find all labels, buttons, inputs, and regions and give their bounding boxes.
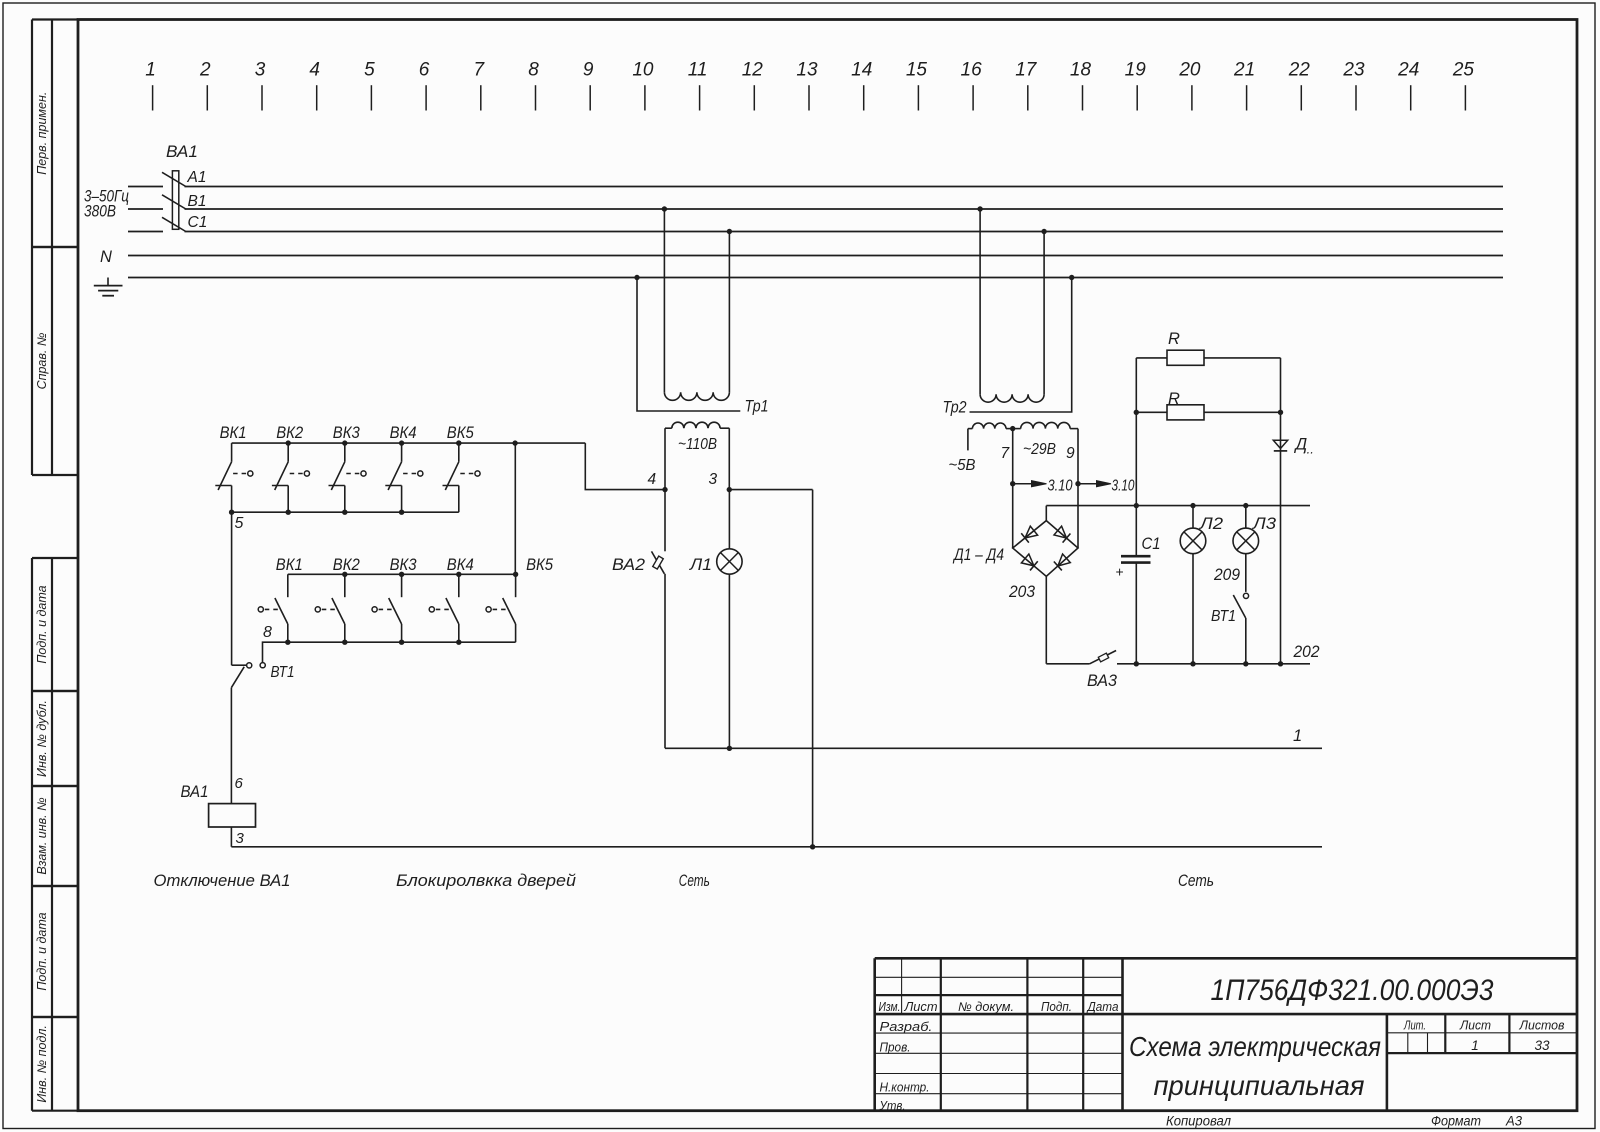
svg-text:R: R (1168, 330, 1180, 348)
svg-text:19: 19 (1125, 60, 1147, 81)
svg-text:принципиальная: принципиальная (1154, 1070, 1365, 1101)
svg-text:23: 23 (1342, 60, 1365, 81)
svg-text:Подп. и дата: Подп. и дата (35, 912, 49, 990)
lamp Л3 (1233, 503, 1277, 592)
svg-text:Н.контр.: Н.контр. (880, 1081, 930, 1095)
svg-text:ВТ1: ВТ1 (1211, 608, 1236, 625)
svg-text:N: N (100, 248, 112, 266)
svg-text:21: 21 (1233, 60, 1255, 81)
svg-text:Блокиролвкка дверей: Блокиролвкка дверей (396, 872, 576, 890)
svg-text:Лист: Лист (1459, 1019, 1491, 1033)
wire Tr2 pin 7 lead (1001, 426, 1016, 548)
transformer Tr2 primary winding (980, 394, 1044, 402)
svg-text:20: 20 (1178, 60, 1201, 81)
svg-text:1П756ДФ321.00.000Э3: 1П756ДФ321.00.000Э3 (1211, 974, 1494, 1007)
svg-text:33: 33 (1534, 1038, 1550, 1053)
svg-text:Д1 – Д4: Д1 – Д4 (952, 546, 1004, 564)
relay coil BA1 (181, 783, 256, 827)
svg-text:ВА1: ВА1 (166, 142, 198, 161)
svg-text:Инв. № подл.: Инв. № подл. (35, 1025, 49, 1103)
svg-text:...: ... (1303, 442, 1314, 457)
wire B1 to Tr1 primary (662, 206, 667, 392)
switch BT1 (right) (1211, 593, 1249, 666)
svg-text:Тр2: Тр2 (943, 398, 967, 417)
label Блокиролвкка дверей (396, 872, 576, 890)
svg-text:25: 25 (1452, 60, 1475, 81)
label Формат А3 (1431, 1114, 1522, 1129)
wire Tr1 pin3 junction (727, 487, 813, 492)
switch BA2 (612, 490, 665, 749)
wire C1 to Tr1 primary (727, 229, 732, 392)
junction dot rail1-BK5 (456, 440, 461, 445)
wire bridge minus to BA3 (1046, 576, 1089, 664)
wire Tr1 shield from PE (634, 275, 740, 411)
wire rail to BK switches row 1 (232, 442, 586, 444)
wire C1 to Tr2 primary (1041, 229, 1046, 394)
wire bottom rail (net to Сеть) (231, 844, 1322, 849)
svg-text:R: R (1168, 390, 1180, 408)
limit switch BK2 (upper row) (272, 423, 310, 515)
svg-text:203: 203 (1008, 583, 1036, 601)
svg-text:4: 4 (648, 471, 657, 488)
svg-text:+: + (1116, 564, 1124, 580)
label Копировал (1166, 1114, 1231, 1129)
label supply 3~50Гц 380В (84, 188, 129, 221)
svg-text:Перв. примен.: Перв. примен. (35, 92, 49, 175)
svg-text:18: 18 (1070, 60, 1092, 81)
wire feed to BK row 2 (514, 443, 516, 574)
limit switch BK1 (upper row) (215, 423, 253, 515)
svg-text:22: 22 (1288, 60, 1311, 81)
svg-text:380В: 380В (84, 203, 116, 221)
left margin stamp boxes (32, 20, 78, 1111)
limit switch BK5 (upper row) (443, 423, 481, 512)
wire plus rail (1046, 505, 1310, 507)
svg-text:Отключение ВА1: Отключение ВА1 (154, 872, 291, 890)
svg-text:Л3: Л3 (1252, 515, 1277, 533)
svg-text:~5В: ~5В (949, 457, 976, 474)
limit switch BK3 (lower row) (372, 555, 417, 645)
svg-text:Сеть: Сеть (679, 872, 710, 890)
label 209 (1213, 566, 1240, 584)
svg-text:3: 3 (255, 60, 266, 81)
svg-text:ВК4: ВК4 (447, 555, 474, 574)
svg-text:ВА2: ВА2 (612, 555, 646, 574)
wire relay BA1 to bottom rail, pin 3 (231, 827, 244, 847)
svg-text:209: 209 (1213, 566, 1240, 584)
wire R branch right riser (1278, 358, 1283, 667)
svg-text:Дата: Дата (1086, 1000, 1119, 1014)
svg-text:Изм.: Изм. (879, 1000, 901, 1014)
wire phase bus A1 (128, 169, 1503, 187)
wire net 202 rail (1117, 643, 1320, 664)
circuit breaker BA1 (162, 142, 198, 232)
diode Д… (1273, 436, 1314, 457)
svg-text:Копировал: Копировал (1166, 1114, 1231, 1129)
svg-text:Инв. № дубл.: Инв. № дубл. (35, 700, 49, 777)
svg-text:4: 4 (309, 60, 320, 81)
svg-text:А3: А3 (1505, 1114, 1522, 1129)
svg-text:Л2: Л2 (1199, 515, 1223, 533)
wire BK rail to Tr1 pin 4 (585, 443, 667, 492)
svg-text:Тр1: Тр1 (745, 397, 769, 416)
svg-text:ВК2: ВК2 (333, 555, 360, 574)
svg-text:Лит.: Лит. (1403, 1019, 1426, 1033)
transformer Tr2 label (943, 398, 967, 417)
svg-text:ВК5: ВК5 (526, 555, 553, 574)
svg-text:Схема электрическая: Схема электрическая (1129, 1031, 1381, 1062)
svg-text:№ докум.: № докум. (958, 1000, 1014, 1014)
svg-text:7: 7 (474, 60, 486, 81)
svg-text:3.10: 3.10 (1112, 478, 1135, 495)
reference arrow 3.10 from pin 9 (1075, 478, 1134, 495)
wire Tr1 pin 4 lead (648, 428, 666, 489)
wire bridge plus riser (1045, 506, 1047, 521)
limit switch BK4 (upper row) (385, 423, 423, 515)
svg-text:12: 12 (742, 60, 764, 81)
svg-text:15: 15 (906, 60, 928, 81)
svg-text:В1: В1 (188, 193, 207, 210)
wire Tr1 pin 3 lead (709, 428, 730, 489)
label Сеть (right) (1178, 872, 1214, 890)
svg-text:ВТ1: ВТ1 (271, 664, 295, 681)
wire B1 to Tr2 primary (977, 206, 982, 394)
svg-text:Взам. инв. №: Взам. инв. № (35, 797, 49, 875)
junction dot rail1 to row2 feed (512, 440, 517, 445)
svg-text:~110В: ~110В (678, 436, 717, 453)
svg-text:8: 8 (528, 60, 539, 81)
svg-text:2: 2 (199, 60, 211, 81)
wire node 5 rail (232, 512, 459, 532)
svg-text:6: 6 (419, 60, 430, 81)
wire drop to bottom rail (812, 490, 814, 847)
label node 203 (1008, 583, 1036, 601)
svg-text:Подп.: Подп. (1041, 1000, 1072, 1014)
svg-text:ВК1: ВК1 (276, 555, 303, 574)
svg-text:9: 9 (1066, 445, 1075, 462)
selector switch BT1 (left) (231, 663, 294, 688)
svg-text:Подп. и дата: Подп. и дата (35, 585, 49, 663)
limit switch BK2 (lower row) (315, 555, 360, 645)
svg-text:13: 13 (796, 60, 818, 81)
transformer Tr1 label (745, 397, 769, 416)
svg-text:9: 9 (583, 60, 594, 81)
svg-text:6: 6 (235, 775, 244, 792)
svg-text:202: 202 (1293, 643, 1320, 661)
wire phase bus B1 (128, 193, 1503, 210)
lamp Л2 (1180, 503, 1223, 667)
switch BA3 (1087, 651, 1118, 691)
svg-text:17: 17 (1015, 60, 1038, 81)
svg-text:Утв.: Утв. (879, 1099, 906, 1113)
svg-text:Листов: Листов (1519, 1019, 1565, 1033)
svg-text:Разраб.: Разраб. (880, 1020, 933, 1034)
svg-text:3.10: 3.10 (1048, 478, 1073, 495)
svg-text:ВК1: ВК1 (220, 423, 247, 442)
svg-text:Формат: Формат (1431, 1114, 1481, 1129)
svg-text:С1: С1 (188, 214, 208, 231)
svg-text:ВК5: ВК5 (447, 423, 474, 442)
svg-text:ВА1: ВА1 (181, 783, 209, 801)
svg-text:1: 1 (1471, 1038, 1479, 1053)
title block (875, 958, 1577, 1113)
svg-text:Сеть: Сеть (1178, 872, 1214, 890)
reference arrow 3.10 from pin 7 (1010, 478, 1073, 495)
label Сеть (left) (679, 872, 710, 890)
limit switch BK5 (lower row) (486, 555, 554, 642)
resistor R (lower) (1134, 390, 1284, 420)
svg-text:ВК2: ВК2 (276, 423, 303, 442)
svg-text:Лист: Лист (903, 1000, 937, 1014)
svg-text:5: 5 (364, 60, 375, 81)
svg-text:ВК3: ВК3 (333, 423, 360, 442)
wire phase bus C1 (128, 214, 1503, 232)
transformer Tr1 primary winding (664, 392, 729, 400)
svg-text:Справ. №: Справ. № (35, 332, 49, 389)
transformer Tr2 secondary winding ~29В (1013, 422, 1078, 458)
resistor R (upper) (1136, 330, 1280, 365)
svg-text:Пров.: Пров. (880, 1041, 911, 1055)
svg-text:ВК3: ВК3 (390, 555, 417, 574)
svg-text:С1: С1 (1142, 535, 1161, 553)
svg-text:5: 5 (235, 515, 244, 532)
wire net 1 (665, 727, 1322, 751)
svg-text:ВК4: ВК4 (390, 423, 417, 442)
svg-text:3: 3 (236, 830, 245, 847)
svg-text:11: 11 (688, 60, 708, 81)
svg-text:1: 1 (145, 60, 156, 81)
wire node5 drop to BT1 (232, 512, 247, 665)
svg-text:3: 3 (709, 471, 718, 488)
transformer Tr2 secondary winding ~5В (949, 423, 1013, 474)
wire rail to BK switches row 2 (288, 573, 516, 575)
limit switch BK3 (upper row) (329, 423, 367, 515)
svg-text:А1: А1 (187, 169, 207, 186)
ground symbol (94, 278, 123, 296)
wire neutral bus N (100, 248, 1503, 266)
svg-text:14: 14 (851, 60, 872, 81)
svg-text:10: 10 (632, 60, 654, 81)
svg-text:~29В: ~29В (1023, 441, 1056, 458)
wire plus rail to C1 and R branch riser (1134, 358, 1139, 556)
bridge rectifier Д1–Д4 (952, 521, 1078, 577)
wire Tr2 pin 9 lead (1066, 429, 1078, 548)
transformer Tr1 secondary winding ~110В (665, 422, 729, 453)
svg-text:16: 16 (961, 60, 983, 81)
wire PE bus (128, 277, 1503, 279)
svg-text:Л1: Л1 (689, 555, 712, 574)
label Отключение ВА1 (154, 872, 291, 890)
svg-text:1: 1 (1293, 727, 1302, 745)
wire BT1 to relay BA1 coil, pin 6 (231, 688, 243, 804)
svg-text:7: 7 (1001, 445, 1011, 462)
svg-text:24: 24 (1397, 60, 1419, 81)
svg-text:ВА3: ВА3 (1087, 672, 1118, 690)
svg-text:8: 8 (263, 624, 272, 641)
limit switch BK1 (lower row) (258, 555, 303, 645)
wire Tr2 shield from PE (970, 275, 1075, 412)
lamp Л1 (689, 490, 742, 749)
limit switch BK4 (lower row) (429, 555, 474, 645)
capacitor C1 (1116, 535, 1161, 667)
wire node 8 rail (263, 624, 516, 663)
column reference ticks 1-25 (145, 60, 1474, 111)
